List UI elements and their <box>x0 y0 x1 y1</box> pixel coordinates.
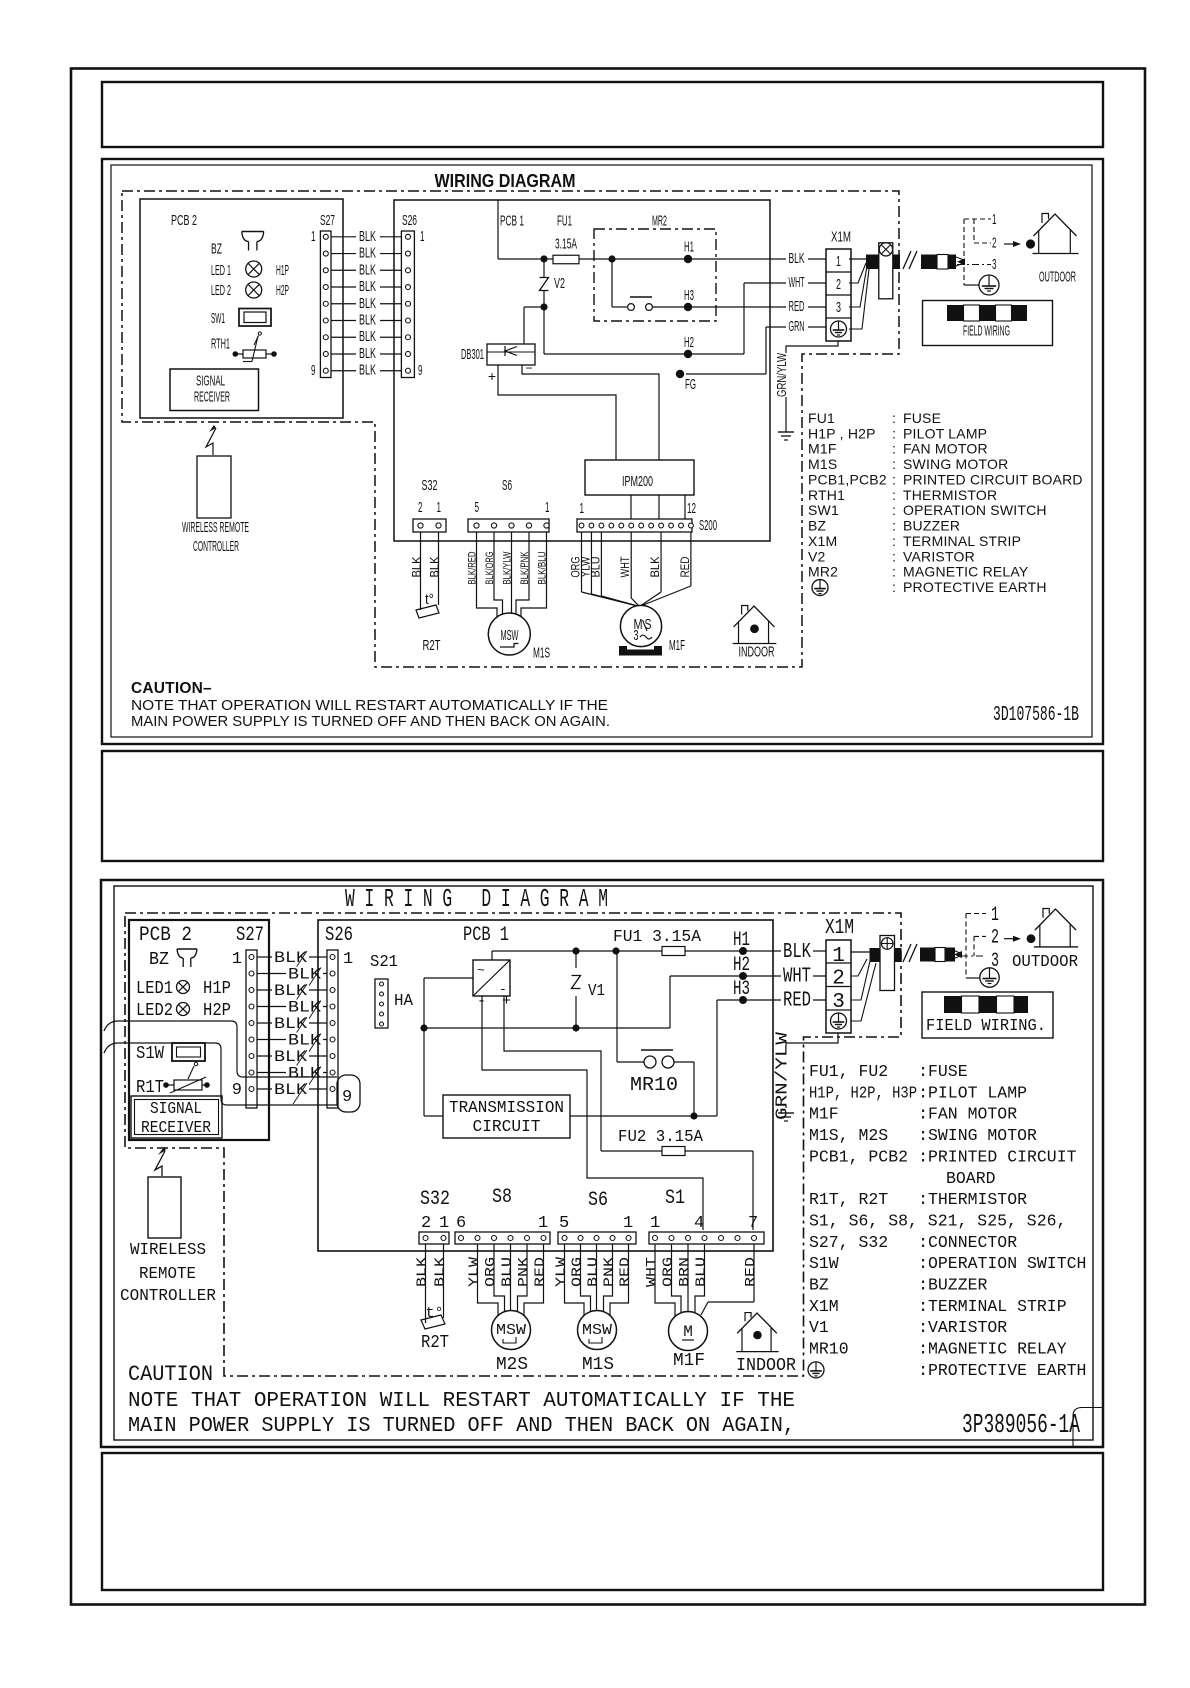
svg-text:BLK/RED: BLK/RED <box>467 551 479 584</box>
svg-text:MR10: MR10 <box>809 1341 849 1360</box>
cable black block D2 <box>870 948 881 962</box>
svg-text:HA: HA <box>394 992 414 1011</box>
svg-text:BLK: BLK <box>428 557 442 578</box>
wire PCB1 top stub D1 <box>497 200 499 259</box>
svg-text:NOTE THAT OPERATION WILL RESTA: NOTE THAT OPERATION WILL RESTART AUTOMAT… <box>131 697 608 714</box>
wire S6b YLW D2 <box>565 1244 585 1316</box>
svg-text:S200: S200 <box>699 517 717 534</box>
svg-text:4: 4 <box>694 1214 704 1233</box>
svg-text:1: 1 <box>420 228 425 245</box>
svg-text:9: 9 <box>232 1081 242 1100</box>
svg-text:V1: V1 <box>588 982 605 1001</box>
swing glyph M1S D1 <box>500 644 519 648</box>
svg-text:M1S: M1S <box>533 645 550 662</box>
indoor unit dash-dot enclosure D1 <box>122 191 899 667</box>
svg-text:OUTDOOR: OUTDOOR <box>1039 269 1076 286</box>
module IPM200 D1 <box>585 460 694 495</box>
wire WHT row D1 <box>744 282 826 284</box>
svg-text::: : <box>892 533 896 549</box>
svg-text:FU1 3.15A: FU1 3.15A <box>613 928 702 947</box>
svg-text:MSW: MSW <box>496 1322 526 1339</box>
svg-text:DB301: DB301 <box>461 346 484 363</box>
bottom empty box <box>102 1453 1103 1590</box>
svg-text:X1M: X1M <box>809 1298 839 1317</box>
svg-text:RED: RED <box>789 298 805 315</box>
svg-text:S32: S32 <box>422 477 438 494</box>
ground symbol D2 <box>778 1112 794 1114</box>
svg-text:WHT: WHT <box>789 274 805 291</box>
svg-text:FU1: FU1 <box>557 213 572 230</box>
svg-text:M1F: M1F <box>669 637 685 654</box>
svg-text:FUSE: FUSE <box>903 410 941 426</box>
svg-text:VARISTOR: VARISTOR <box>928 1319 1007 1338</box>
PCB2 board box D2 <box>129 920 269 1140</box>
svg-text:BZ: BZ <box>149 950 169 970</box>
wireless remote box D1 <box>197 456 231 518</box>
legend D1 row 12 PROTECTIVE EARTH <box>812 580 828 596</box>
svg-text:BUZZER: BUZZER <box>903 518 960 534</box>
svg-text:1: 1 <box>343 950 353 969</box>
wire BLK row 2 S27-S26 D2 <box>257 973 327 975</box>
wire S6 pin2 D1 <box>516 532 529 615</box>
wire S200 YLW D1 <box>590 532 592 594</box>
svg-text:PCB 2: PCB 2 <box>171 212 197 229</box>
svg-text:H3: H3 <box>733 978 750 1001</box>
svg-text:X1M: X1M <box>831 229 851 246</box>
label RED D1 <box>786 301 808 314</box>
svg-text:BLK/PNK: BLK/PNK <box>519 551 531 584</box>
wire main H1 row D2 <box>492 950 826 952</box>
screw terminal D2 <box>880 936 895 991</box>
wire GRN-YLW D2 <box>786 1033 838 1108</box>
varistor V1 D2 <box>575 951 577 968</box>
svg-text:BZ: BZ <box>809 1277 829 1296</box>
svg-text:BLU: BLU <box>500 1257 516 1287</box>
svg-text:PROTECTIVE EARTH: PROTECTIVE EARTH <box>903 579 1047 595</box>
svg-text:FIELD WIRING.: FIELD WIRING. <box>926 1017 1046 1036</box>
outdoor dot D2 <box>1027 934 1036 943</box>
svg-text:TERMINAL STRIP: TERMINAL STRIP <box>928 1298 1067 1317</box>
svg-text:SWING MOTOR: SWING MOTOR <box>903 456 1008 472</box>
svg-text:3: 3 <box>634 627 639 644</box>
junction dot MR2 branch D1 <box>608 255 615 262</box>
svg-text:GRN: GRN <box>789 318 805 335</box>
wire rect top D2 <box>491 951 493 960</box>
svg-text:PRINTED CIRCUIT: PRINTED CIRCUIT <box>928 1148 1077 1167</box>
svg-text::: : <box>892 471 896 487</box>
svg-text:1: 1 <box>311 228 316 245</box>
svg-text:2: 2 <box>418 499 423 516</box>
svg-text:H2: H2 <box>733 954 750 977</box>
svg-text:R1T, R2T: R1T, R2T <box>809 1191 888 1210</box>
svg-text::: : <box>892 579 896 595</box>
svg-text:TERMINAL STRIP: TERMINAL STRIP <box>903 533 1021 549</box>
svg-text:S27: S27 <box>320 212 335 229</box>
svg-text:1: 1 <box>538 1214 548 1233</box>
wire BLK row 9 S27-S26 D1 <box>331 370 401 372</box>
protective earth outdoor D1 <box>964 284 979 286</box>
svg-text:SIGNAL: SIGNAL <box>196 373 225 390</box>
svg-text:PROTECTIVE EARTH: PROTECTIVE EARTH <box>928 1362 1086 1381</box>
svg-text:M1F: M1F <box>808 441 837 457</box>
indoor house icon D2 <box>745 1313 751 1322</box>
svg-text:M2S: M2S <box>496 1355 528 1375</box>
svg-text:MSW: MSW <box>582 1322 612 1339</box>
wire IPM200-S200 c D1 <box>684 495 686 519</box>
wire BLK row 6 S27-S26 D2 <box>257 1039 327 1041</box>
label GRN/YLW D2 <box>779 1047 793 1105</box>
swing motor M1S D1 <box>488 613 530 655</box>
contact H2 D1 <box>684 350 692 358</box>
diagram 1 inner box <box>111 165 1092 737</box>
svg-text:BLK: BLK <box>433 1256 449 1287</box>
wire S6 pin5 D1 <box>477 532 498 617</box>
wire S1 RED D2 <box>753 1244 755 1302</box>
svg-text::: : <box>892 456 896 472</box>
wire S200 RED D1 <box>690 532 692 586</box>
svg-text:NOTE THAT OPERATION WILL RESTA: NOTE THAT OPERATION WILL RESTART AUTOMAT… <box>128 1390 795 1413</box>
svg-text:BLK: BLK <box>359 278 376 295</box>
wire S8 YLW D2 <box>478 1244 499 1316</box>
svg-text:BLK: BLK <box>359 228 376 245</box>
svg-text:WIRING DIAGRAM: WIRING DIAGRAM <box>435 170 576 191</box>
svg-text:FAN MOTOR: FAN MOTOR <box>903 441 988 457</box>
wire BLK row 3 S27-S26 D1 <box>331 269 401 271</box>
svg-text:9: 9 <box>342 1088 352 1107</box>
wire DB301 top D1 <box>523 307 525 344</box>
svg-text:CIRCUIT: CIRCUIT <box>473 1118 541 1137</box>
svg-text:WHT: WHT <box>783 966 811 989</box>
field wiring dashed lines D2 <box>965 914 967 979</box>
connector S32 D2 <box>419 1232 449 1244</box>
wire BLK row 7 S27-S26 D1 <box>331 336 401 338</box>
svg-text:PILOT LAMP: PILOT LAMP <box>903 425 987 441</box>
wire S6b RED D2 <box>610 1244 629 1316</box>
S26 pin9 bubble D2 <box>337 1075 360 1112</box>
wire BLK row 8 S27-S26 D1 <box>331 353 401 355</box>
wire S6b ORG D2 <box>581 1244 591 1314</box>
swing motor M1S D2 <box>578 1311 617 1350</box>
wire BLK row 4 S27-S26 D2 <box>257 1006 327 1008</box>
magnetic relay MR2 dash box D1 <box>594 229 716 321</box>
svg-text:M: M <box>683 1323 693 1341</box>
svg-text:M1F: M1F <box>809 1106 839 1125</box>
svg-text:OPERATION SWITCH: OPERATION SWITCH <box>928 1255 1086 1274</box>
label GRN D1 <box>786 321 808 334</box>
connector S27 D1 <box>320 231 331 378</box>
revision mark D2 <box>1073 1408 1103 1447</box>
svg-text:H1: H1 <box>733 929 750 952</box>
svg-text:ORG: ORG <box>570 1257 586 1287</box>
diagram 2 inner box <box>114 886 1093 1440</box>
wire X1M earth to screw D1 <box>849 269 869 329</box>
svg-text:FUSE: FUSE <box>928 1063 968 1082</box>
svg-text:MR10: MR10 <box>630 1074 678 1096</box>
svg-text:R2T: R2T <box>421 1333 449 1353</box>
field wiring dashed lines D1 <box>963 219 965 285</box>
PCB1 board box D1 <box>394 200 770 541</box>
wire S200 BLK D1 <box>660 532 662 592</box>
outdoor dot D1 <box>1026 239 1035 248</box>
varistor V2 D1 <box>543 259 545 277</box>
svg-text:−: − <box>525 361 532 375</box>
svg-text::: : <box>918 1319 928 1338</box>
svg-text:2: 2 <box>832 968 845 991</box>
svg-text:INDOOR: INDOOR <box>736 1356 796 1376</box>
svg-text:S1, S6, S8, S21, S25, S26,: S1, S6, S8, S21, S25, S26, <box>809 1212 1066 1231</box>
svg-text:MAIN POWER SUPPLY IS TURNED OF: MAIN POWER SUPPLY IS TURNED OFF AND THEN… <box>131 713 610 730</box>
indoor house icon D1 <box>742 606 748 615</box>
svg-text:BUZZER: BUZZER <box>928 1277 987 1296</box>
svg-text:W I R I N G D I A G R A M: W I R I N G D I A G R A M <box>345 884 608 914</box>
signal receiver box D2 <box>131 1096 222 1138</box>
svg-text:S1: S1 <box>665 1187 685 1210</box>
svg-text:BLK/ORG: BLK/ORG <box>484 552 496 585</box>
thermistor R1T D2 <box>163 1082 169 1088</box>
wire IPM200-S200 b D1 <box>658 495 660 519</box>
svg-text:9: 9 <box>311 362 316 379</box>
svg-text:RTH1: RTH1 <box>808 487 845 503</box>
svg-text:12: 12 <box>687 500 696 517</box>
fuse FU2 D2 <box>662 1147 685 1156</box>
svg-text:H1P: H1P <box>276 262 289 279</box>
svg-text:2: 2 <box>421 1214 431 1233</box>
wire S200 WHT D1 <box>630 532 632 598</box>
svg-text:BLK: BLK <box>359 245 376 262</box>
svg-text:1: 1 <box>623 1214 633 1233</box>
wire IPM200-S200 a D1 <box>630 495 632 519</box>
wire X1M1 cable D2 <box>851 951 870 953</box>
svg-text:M1S, M2S: M1S, M2S <box>809 1127 888 1146</box>
svg-text:OUTDOOR: OUTDOOR <box>1012 953 1078 972</box>
field wiring stripes D2 <box>944 996 962 1013</box>
svg-text:H1P, H2P, H3P: H1P, H2P, H3P <box>809 1084 917 1103</box>
svg-text::: : <box>892 548 896 564</box>
svg-text:PNK: PNK <box>602 1256 618 1287</box>
svg-text::: : <box>892 441 896 457</box>
connector S21 D2 <box>375 979 388 1028</box>
svg-text:BLU: BLU <box>588 557 602 578</box>
wire BLK row 5 S27-S26 D2 <box>257 1022 327 1024</box>
svg-text:3: 3 <box>832 991 845 1014</box>
wire DB301 minus to IPM D1 <box>522 365 659 460</box>
LED1 lamp H1P D1 <box>246 261 262 277</box>
wire loop B D2 <box>104 1043 337 1105</box>
svg-text:BZ: BZ <box>808 518 827 534</box>
field wiring box D2 <box>922 992 1053 1038</box>
svg-text:RTH1: RTH1 <box>211 336 230 353</box>
wire S1 BRN D2 <box>687 1244 689 1312</box>
svg-text:X1M: X1M <box>808 533 837 549</box>
svg-text:REMOTE: REMOTE <box>139 1265 196 1284</box>
svg-text:3D107586-1B: 3D107586-1B <box>993 704 1079 727</box>
svg-text:FU1, FU2: FU1, FU2 <box>809 1063 888 1082</box>
cable break slashes D2 <box>903 944 911 962</box>
wire S32 pin1 D2 <box>443 1244 445 1318</box>
svg-text:CONTROLLER: CONTROLLER <box>193 538 239 555</box>
svg-text:H1: H1 <box>684 239 694 256</box>
fan motor M1F D1 <box>620 605 661 646</box>
LED2 lamp D2 <box>177 1003 190 1016</box>
svg-text::: : <box>892 518 896 534</box>
svg-text:5: 5 <box>559 1214 569 1233</box>
svg-text:H1P , H2P: H1P , H2P <box>808 425 876 441</box>
connector S27 D2 <box>246 950 257 1108</box>
protective earth outdoor D2 <box>966 977 980 979</box>
svg-text:M1S: M1S <box>808 456 837 472</box>
svg-text:INDOOR: INDOOR <box>739 644 775 661</box>
wire X1M2 cable D2 <box>851 959 867 976</box>
wire S1 BLU D2 <box>695 1244 705 1313</box>
wire H2 riser D2 <box>669 976 671 1028</box>
wire BLK row 4 S27-S26 D1 <box>331 286 401 288</box>
svg-text:CONTROLLER: CONTROLLER <box>120 1287 216 1306</box>
svg-text::: : <box>892 425 896 441</box>
wire H2 to V2 node D1 <box>544 353 688 355</box>
svg-text:BLK: BLK <box>359 295 376 312</box>
svg-text:SWING MOTOR: SWING MOTOR <box>928 1127 1037 1146</box>
svg-text:MR2: MR2 <box>808 564 838 580</box>
svg-text:H2P: H2P <box>276 282 289 299</box>
wireless remote antenna D2 <box>155 1151 165 1176</box>
swing motor M2S D2 <box>492 1311 531 1350</box>
outdoor house icon D1 <box>1042 214 1049 224</box>
svg-text:PCB 1: PCB 1 <box>463 924 509 947</box>
svg-text:3.15A: 3.15A <box>555 236 577 253</box>
wire S6 pin4 D1 <box>494 532 503 615</box>
svg-text:RED: RED <box>783 990 811 1013</box>
field wiring box D1 <box>923 301 1053 346</box>
svg-text:1: 1 <box>232 950 242 969</box>
svg-text:FG: FG <box>685 376 696 393</box>
terminal strip X1M D1 <box>826 249 851 341</box>
svg-text:OPERATION SWITCH: OPERATION SWITCH <box>903 502 1047 518</box>
wire X1M3 cable D2 <box>851 961 870 1000</box>
wire S6 pin3 D1 <box>511 532 513 614</box>
svg-text:FU1: FU1 <box>808 410 835 426</box>
fuse FU1 D1 <box>553 255 579 264</box>
svg-text:BLK: BLK <box>359 261 376 278</box>
svg-text:3P389056-1A: 3P389056-1A <box>962 1411 1081 1441</box>
wire S6 pin1 D1 <box>521 532 547 617</box>
wire X1M3 to cable D1 <box>849 266 867 307</box>
svg-text:WHT: WHT <box>644 1257 660 1287</box>
svg-text:BLK: BLK <box>789 250 805 267</box>
svg-text:BLK: BLK <box>359 328 376 345</box>
svg-text:3: 3 <box>836 299 841 316</box>
wire BLK row 8 S27-S26 D2 <box>257 1072 327 1074</box>
svg-text:S26: S26 <box>325 924 353 947</box>
svg-text:R2T: R2T <box>423 637 441 654</box>
bridge rectifier DB301 D1 <box>487 344 535 365</box>
svg-text:9: 9 <box>418 362 423 379</box>
LED2 lamp H2P D1 <box>246 282 262 298</box>
connector S200 D1 <box>577 519 692 532</box>
cable break slashes D1 <box>903 251 911 269</box>
svg-text:BRN: BRN <box>677 1257 693 1287</box>
svg-text:IPM200: IPM200 <box>622 473 653 490</box>
svg-text:2: 2 <box>991 927 999 950</box>
contact H2 D2 <box>739 972 747 980</box>
wire BLK row 7 S27-S26 D2 <box>257 1055 327 1057</box>
wire BLK row 5 S27-S26 D1 <box>331 303 401 305</box>
svg-text:S27, S32: S27, S32 <box>809 1234 888 1253</box>
svg-text:MAGNETIC RELAY: MAGNETIC RELAY <box>928 1341 1067 1360</box>
svg-text::: : <box>918 1063 928 1082</box>
svg-text:YLW: YLW <box>467 1256 483 1287</box>
svg-text:VARISTOR: VARISTOR <box>903 548 975 564</box>
svg-text:CAUTION: CAUTION <box>128 1362 213 1387</box>
field cable stripes D1 <box>921 255 937 270</box>
wire RED row D1 <box>692 306 826 308</box>
buzzer BZ D2 <box>177 948 197 950</box>
fan motor base bar D1 <box>619 650 662 656</box>
svg-text:WHT: WHT <box>618 556 632 578</box>
svg-text::: : <box>918 1127 928 1146</box>
svg-text:RED: RED <box>618 1257 634 1287</box>
svg-text:ORG: ORG <box>483 1257 499 1287</box>
svg-text:LED1: LED1 <box>136 979 173 999</box>
PCB2 board box D1 <box>140 199 343 418</box>
svg-text:LED 2: LED 2 <box>211 282 231 299</box>
wire FU2 row D2 <box>601 1150 753 1152</box>
svg-text:CONNECTOR: CONNECTOR <box>928 1234 1017 1253</box>
svg-text:SIGNAL: SIGNAL <box>150 1100 202 1119</box>
svg-text:1: 1 <box>836 253 841 270</box>
svg-text:GRN/YLW: GRN/YLW <box>775 353 789 397</box>
wire S32 pin2 D2 <box>425 1244 427 1323</box>
swing glyph M2S D2 <box>503 1337 516 1343</box>
thermistor R2T D1 <box>420 590 422 610</box>
svg-text::: : <box>918 1106 928 1125</box>
wire S200 ORG D1 <box>581 532 583 592</box>
svg-text:H2: H2 <box>684 334 694 351</box>
svg-text:PCB1,PCB2: PCB1,PCB2 <box>808 471 887 487</box>
svg-text:+: + <box>502 993 511 1010</box>
relay switch MR2 D1 <box>611 259 613 307</box>
svg-text:WIRELESS: WIRELESS <box>130 1241 206 1260</box>
operation switch S1W D2 <box>172 1043 205 1061</box>
svg-text:5: 5 <box>475 499 480 516</box>
wire DB301 plus to IPM D1 <box>498 365 616 460</box>
svg-text::: : <box>918 1362 928 1381</box>
wire S200 BLU D1 <box>600 532 602 596</box>
wire X1M2 to cable D1 <box>849 263 866 283</box>
svg-text:BLK/BLU: BLK/BLU <box>537 551 549 584</box>
wire color labels D2 <box>781 942 813 958</box>
svg-text:RED: RED <box>678 556 692 577</box>
wire minus bus D2 <box>424 977 473 979</box>
signal receiver box D1 <box>170 369 259 411</box>
swing glyph M1S D2 <box>589 1337 602 1343</box>
wire S6b BLU D2 <box>596 1244 598 1313</box>
wire S1 WHT D2 <box>655 1244 675 1316</box>
svg-text:X1M: X1M <box>825 917 854 940</box>
connector S6 D1 <box>468 519 549 532</box>
svg-text:RED: RED <box>743 1257 759 1287</box>
svg-text:M1F: M1F <box>673 1351 705 1371</box>
svg-text::: : <box>918 1298 928 1317</box>
svg-text:1: 1 <box>650 1214 660 1233</box>
svg-text:7: 7 <box>748 1214 758 1233</box>
rectifier D2 <box>473 960 510 996</box>
transmission circuit box D2 <box>443 1095 570 1138</box>
svg-text:S8: S8 <box>492 1186 512 1209</box>
buzzer BZ D1 <box>242 231 264 233</box>
wire S1 ORG D2 <box>672 1244 682 1313</box>
wire BLK main row D1 <box>498 258 826 260</box>
svg-text:MR2: MR2 <box>652 213 667 230</box>
